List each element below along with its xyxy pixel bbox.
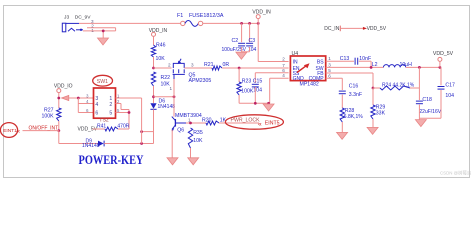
svg-text:U4: U4 — [292, 51, 299, 57]
svg-text:VDD_5V: VDD_5V — [78, 127, 98, 133]
wire R46 to node — [153, 57, 155, 68]
svg-text:104: 104 — [445, 93, 454, 99]
svg-text:FUSE1812/3A: FUSE1812/3A — [189, 13, 224, 19]
svg-text:DC_IN: DC_IN — [324, 26, 339, 32]
svg-text:R23: R23 — [242, 79, 252, 85]
svg-text:C17: C17 — [445, 83, 455, 89]
svg-text:C2: C2 — [232, 38, 239, 44]
wire C16 to R28 — [341, 95, 343, 108]
svg-text:10K: 10K — [193, 138, 203, 144]
junction cross link — [140, 130, 143, 133]
resistor R29 — [371, 105, 375, 119]
resistor R21 — [212, 66, 222, 70]
wire FB to R29 — [372, 88, 374, 105]
wire BS to C13 — [326, 60, 354, 62]
wire C18 bottom — [418, 105, 420, 120]
svg-text:C3: C3 — [249, 38, 256, 44]
annotation ellipse PWR_LOCK — [225, 115, 283, 129]
svg-text:22uF/16V: 22uF/16V — [419, 109, 441, 115]
junction VDD_5V out — [439, 66, 442, 69]
svg-text:R20: R20 — [202, 117, 212, 123]
wire D6 down — [153, 109, 155, 143]
junction GND node — [267, 102, 270, 105]
wire gate node — [154, 96, 175, 98]
svg-text:6: 6 — [95, 111, 98, 117]
wire C15 bottom — [254, 87, 256, 103]
port tick DC_IN — [339, 26, 341, 32]
resistor R22 — [151, 72, 155, 86]
wire R41 to pin5 — [118, 128, 129, 130]
svg-text:R22: R22 — [161, 75, 171, 81]
junction at VDD_IN drop — [257, 22, 260, 25]
wire SW1 pin2 right — [116, 103, 122, 105]
wire pin2 down — [120, 104, 122, 110]
annotation ellipse EINT1 — [0, 123, 17, 138]
svg-text:6.8K,1%: 6.8K,1% — [344, 114, 363, 120]
resistor R24 — [380, 86, 410, 90]
resistor R23 — [237, 82, 241, 95]
wire Q6 base to R20 — [186, 122, 206, 124]
svg-text:10K: 10K — [156, 56, 166, 62]
transistor Q5 APM2305 — [173, 63, 184, 68]
svg-text:Q6: Q6 — [177, 128, 184, 134]
ground at C2 C3 — [236, 52, 247, 59]
svg-text:C13: C13 — [340, 56, 350, 62]
svg-text:«: « — [258, 121, 262, 128]
svg-text:F1: F1 — [177, 13, 183, 19]
wire R24 right — [410, 87, 419, 89]
junction C13 SW — [370, 66, 373, 69]
wire J3 pin2 to ground loop — [87, 27, 116, 29]
diode D6 1N4148 — [150, 103, 156, 109]
arrow to VDD_5V — [363, 27, 367, 30]
svg-text:VDD_5V: VDD_5V — [433, 51, 454, 57]
svg-text:J3: J3 — [64, 15, 69, 21]
svg-text:1: 1 — [328, 56, 331, 61]
annotation ellipse SW1 — [93, 75, 113, 86]
svg-text:1N4148: 1N4148 — [82, 143, 100, 149]
svg-text:APM2305: APM2305 — [189, 78, 212, 84]
svg-text:3: 3 — [328, 63, 331, 68]
svg-text:EINT1: EINT1 — [3, 128, 17, 134]
svg-text:CSDN @树莓派: CSDN @树莓派 — [440, 170, 472, 177]
svg-text:VDD_IO: VDD_IO — [54, 84, 73, 90]
svg-text:C18: C18 — [422, 97, 432, 103]
capacitor C2 — [238, 42, 245, 44]
wire FB to divider — [326, 72, 373, 74]
svg-text:GND: GND — [293, 76, 305, 82]
diode D9 1N4148 — [98, 141, 104, 147]
svg-text:VDD_5V: VDD_5V — [367, 26, 387, 32]
svg-text:1N4148: 1N4148 — [158, 104, 176, 110]
svg-text:COMP: COMP — [309, 76, 325, 82]
svg-text:EINT5: EINT5 — [265, 121, 280, 127]
inductor L2 — [383, 65, 405, 68]
svg-text:PWR_LOCK: PWR_LOCK — [231, 118, 261, 124]
wire C13 to SW node — [359, 60, 371, 62]
capacitor C3 — [246, 42, 253, 44]
wire L2 to output — [406, 66, 441, 68]
junction R46 R22 Q5 — [152, 67, 155, 70]
svg-text:DC_9V: DC_9V — [75, 15, 92, 21]
junction at C2 — [240, 22, 243, 25]
wire R22 to D6 node — [153, 86, 155, 103]
capacitor C17 — [438, 86, 445, 88]
junction R22 D6 — [152, 95, 155, 98]
power symbol VDD_IN at R46 — [152, 32, 156, 36]
connector J3 DC_9V jack — [62, 23, 66, 32]
ground at R28 — [337, 132, 348, 139]
svg-text:R21: R21 — [204, 62, 214, 68]
wire R28 to ground — [341, 122, 343, 132]
ground at J3 — [98, 38, 109, 45]
power symbol VDD_5V — [438, 57, 442, 61]
svg-text:SW1: SW1 — [97, 79, 108, 85]
svg-text:POWER-KEY: POWER-KEY — [79, 152, 144, 167]
svg-text:0R: 0R — [223, 62, 230, 68]
wire C18 stem — [418, 88, 420, 100]
svg-text:6: 6 — [282, 68, 285, 73]
ground at U4 — [263, 104, 274, 111]
power symbol VDD_IN — [256, 15, 260, 19]
svg-text:3.3nF: 3.3nF — [349, 92, 362, 98]
wire C2 stem — [241, 23, 243, 42]
wire R29 to ground — [372, 119, 374, 127]
svg-text:C15: C15 — [253, 78, 263, 84]
resistor R46 — [151, 45, 155, 57]
svg-text:5: 5 — [328, 68, 331, 73]
wire cross link — [142, 131, 154, 133]
svg-text:R24 44.2K,1%: R24 44.2K,1% — [382, 82, 415, 88]
svg-text:L2: L2 — [372, 62, 378, 68]
wire SW1 pin5 right — [116, 112, 130, 114]
wire fuse to VDD_IN node — [203, 22, 258, 24]
junction ON/OFF_INT — [57, 129, 60, 132]
transistor Q6 MMBT3904 — [174, 119, 176, 127]
svg-text:1: 1 — [170, 86, 173, 91]
wire node down to D9 — [58, 131, 60, 144]
svg-text:2: 2 — [168, 62, 171, 67]
wire C3 stem — [249, 23, 251, 42]
junction at C3 — [248, 22, 251, 25]
svg-text:R35: R35 — [193, 130, 203, 136]
wire R23 to ground rail — [238, 95, 240, 103]
wire SW1 pin6 stub — [78, 112, 93, 114]
ground at C18 — [415, 120, 426, 127]
svg-text:C16: C16 — [349, 84, 359, 90]
svg-text:IN: IN — [293, 60, 298, 66]
op-amp U4 MP1482 body — [290, 56, 325, 81]
junction SW1 left — [77, 97, 80, 100]
svg-text:2: 2 — [282, 57, 285, 62]
wire EINT1 to R27 node — [23, 130, 59, 132]
junction gate node — [173, 95, 176, 98]
junction R35 base — [189, 122, 192, 125]
wire J3 pin1 to ground — [83, 30, 116, 32]
svg-text:33K: 33K — [376, 111, 386, 117]
junction FB R24 — [372, 87, 375, 90]
wire R24 left — [373, 87, 380, 89]
wire VDD_IN to U4 IN — [257, 23, 259, 61]
switch SW1 TS2 body — [94, 88, 116, 118]
svg-text:2: 2 — [109, 102, 112, 108]
capacitor C18 — [416, 100, 423, 102]
wire J3 pin3 to fuse F1 — [79, 22, 181, 24]
resistor R35 — [188, 128, 192, 148]
svg-text:4: 4 — [95, 102, 98, 108]
wire C17 stem — [440, 67, 442, 85]
wire gate to Q6 collector — [173, 97, 175, 117]
junction R24 top — [418, 66, 421, 69]
wire R27 to ON/OFF_INT — [58, 121, 60, 131]
svg-text:VDD_IN: VDD_IN — [149, 28, 168, 34]
capacitor C13 — [354, 58, 356, 65]
junction D9 SW1 — [140, 142, 143, 145]
svg-text:«: « — [16, 128, 20, 135]
ground at R35 — [188, 158, 199, 165]
svg-text:R46: R46 — [156, 43, 166, 49]
wire DC_IN to VDD_5V — [340, 27, 363, 29]
capacitor C15 — [252, 83, 259, 85]
wire SS to C15 — [255, 72, 288, 74]
ground at R29 — [367, 127, 378, 134]
svg-text:BS: BS — [317, 60, 324, 66]
wire pin5 down to R41 — [128, 110, 130, 130]
wire SW1 left bus — [77, 98, 79, 113]
wire SW pin to L2 — [326, 66, 384, 68]
wire pin1 down to D9 — [141, 98, 143, 144]
wire COMP to C16 — [326, 77, 343, 79]
resistor R20 — [206, 121, 219, 125]
svg-text:VDD_IN: VDD_IN — [252, 10, 271, 16]
wire R20 to PWR_LOCK — [219, 122, 259, 124]
capacitor C16 — [339, 90, 346, 92]
junction VDD_IO arrow — [57, 97, 60, 100]
svg-text:10K: 10K — [161, 82, 171, 88]
svg-text:5: 5 — [109, 111, 112, 117]
wire U4 GND down — [270, 77, 289, 79]
wire to D9 — [59, 143, 98, 145]
wire R21 to U4 EN — [222, 67, 289, 69]
wire arrow to SW1 pin3 — [69, 97, 94, 99]
svg-text:R41: R41 — [97, 123, 106, 129]
wire C17 bottom — [440, 90, 442, 118]
power symbol VDD_IO — [57, 89, 61, 93]
wire SW1 pin4 stub — [78, 103, 93, 105]
wire SW1 pin1 right — [116, 97, 142, 99]
svg-text:100K: 100K — [241, 89, 254, 95]
resistor R41 — [105, 127, 118, 131]
resistor R28 — [340, 108, 344, 122]
wire VDD_5V to R41 — [93, 128, 106, 130]
junction R23 branch — [238, 67, 241, 70]
port arrow to SW1 — [62, 95, 69, 100]
svg-text:4: 4 — [282, 73, 285, 78]
wire Q6 emitter to ground — [171, 130, 173, 158]
wire R35 to ground — [190, 148, 192, 158]
wire node to Q5 source — [154, 67, 172, 69]
fuse F1 — [181, 21, 185, 25]
wire Q5 drain to R21 — [184, 67, 212, 69]
junction C15 ground — [254, 102, 257, 105]
resistor R27 — [57, 108, 61, 121]
wire C2 C3 bottoms — [241, 47, 243, 52]
svg-text:3: 3 — [191, 62, 194, 67]
svg-text:100K: 100K — [42, 114, 55, 120]
ground at Q6 — [167, 158, 178, 165]
red cursor arrow on U4 — [297, 65, 308, 73]
wire D9 to SW node — [104, 143, 153, 145]
wire rail to R23 — [238, 68, 240, 82]
svg-text:104: 104 — [253, 88, 262, 94]
wire Q5 gate down — [173, 74, 175, 79]
